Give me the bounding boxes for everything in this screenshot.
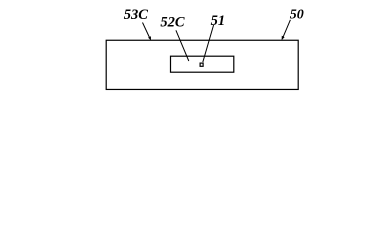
svg-text:53C: 53C <box>124 7 149 23</box>
svg-text:51: 51 <box>211 13 226 29</box>
svg-text:52C: 52C <box>160 15 185 31</box>
svg-text:50: 50 <box>290 8 304 23</box>
